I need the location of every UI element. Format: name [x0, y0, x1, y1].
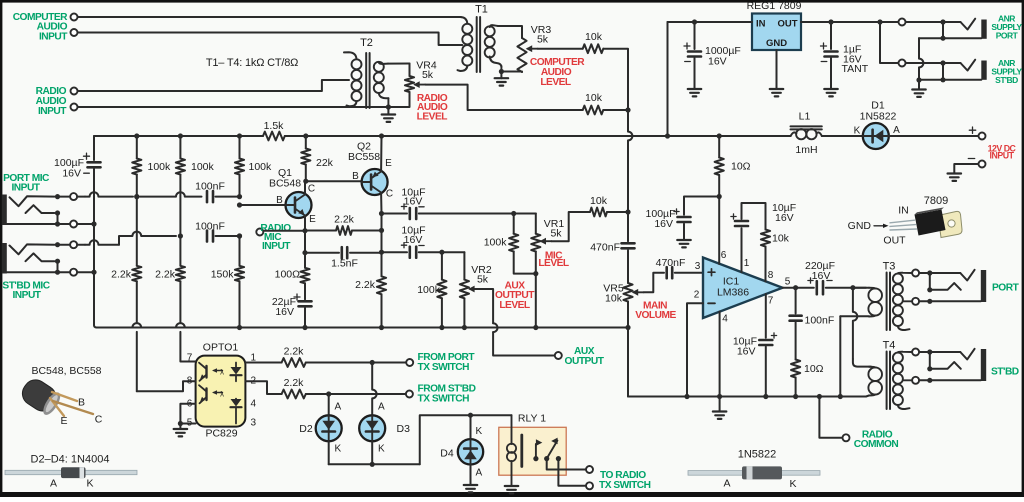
transformer T4 [868, 340, 911, 410]
svg-text:2.2k: 2.2k [155, 269, 176, 281]
ground 12V input [948, 174, 962, 181]
jack ST'BD output [912, 349, 986, 384]
svg-text:B: B [78, 397, 85, 409]
svg-text:OUT: OUT [777, 19, 797, 30]
svg-text:A: A [335, 402, 342, 413]
wire to VR1 top [535, 214, 537, 234]
diode D3 1N4004 [359, 402, 410, 455]
wire T2 secondary top to VR4 [388, 63, 410, 65]
package drawing 1N5822 [688, 449, 820, 491]
svg-text:10k: 10k [772, 233, 790, 245]
wire L1 to D1 [822, 135, 863, 137]
svg-text:GND: GND [766, 38, 787, 49]
svg-text:TANT: TANT [842, 63, 869, 75]
node T2 secondary bottom junction [386, 98, 391, 114]
capacitor 10uF 16V (aux out) [383, 225, 464, 258]
wire D1 to +12V terminal [889, 135, 978, 137]
resistor 150k [211, 233, 244, 327]
svg-text:16V: 16V [404, 234, 423, 246]
svg-text:VOLUME: VOLUME [635, 310, 676, 321]
label ANR SUPPLY PORT [991, 14, 1022, 41]
svg-text:IN: IN [898, 205, 909, 217]
svg-text:5: 5 [785, 276, 791, 287]
svg-text:100Ω: 100Ω [275, 269, 301, 281]
svg-text:TX SWITCH: TX SWITCH [418, 362, 470, 373]
svg-text:T4: T4 [883, 340, 896, 352]
svg-text:LEVEL: LEVEL [540, 77, 571, 88]
relay RLY 1 [499, 413, 566, 487]
svg-text:λ: λ [220, 390, 224, 399]
svg-text:16V: 16V [275, 306, 294, 318]
svg-text:BC548: BC548 [269, 178, 301, 190]
transistor Q2 BC558 [348, 141, 393, 200]
svg-text:2.2k: 2.2k [355, 279, 376, 291]
wire pin2 [684, 303, 703, 399]
package drawing BC548 BC558 TO-92 [18, 365, 103, 427]
svg-text:D4: D4 [440, 448, 454, 460]
wire mic common column to bottom bus [94, 325, 97, 328]
svg-text:1N5822: 1N5822 [860, 111, 897, 123]
svg-text:2: 2 [694, 290, 700, 301]
svg-text:5k: 5k [537, 34, 549, 46]
terminal RADIO COMMON [843, 430, 899, 451]
svg-text:4: 4 [251, 399, 257, 410]
svg-text:D3: D3 [397, 423, 411, 435]
resistor 100k bias stbd [176, 136, 215, 236]
capacitor 1000uF 16V [684, 22, 741, 89]
wire to ST'BD supply [880, 22, 961, 67]
svg-text:K: K [378, 444, 385, 455]
svg-text:COMMON: COMMON [854, 439, 899, 450]
wire opto pin7 [180, 332, 195, 362]
resistor 100k bias port [132, 136, 171, 197]
wire VR4 wiper to 10k line [425, 85, 583, 110]
wire T3 primary top [853, 287, 869, 289]
capacitor 10uF 16V (mic out) [383, 187, 536, 220]
wire D2 anode [328, 394, 330, 415]
svg-text:16V: 16V [654, 218, 673, 230]
svg-text:B: B [352, 171, 359, 182]
label COMPUTER AUDIO LEVEL [530, 57, 585, 88]
svg-text:GND: GND [848, 220, 872, 232]
wire summing column crossing supply bus [628, 110, 632, 212]
wire port mic tip line [77, 192, 201, 199]
wire port mic sleeve to common [77, 221, 96, 226]
svg-text:1N5822: 1N5822 [738, 449, 777, 461]
wire REG GND pin [776, 50, 778, 89]
svg-text:A: A [378, 402, 385, 413]
wire to VR2 top [463, 252, 465, 279]
wire D3 anode crossing [372, 363, 376, 415]
capacitor 100uF 16V (input rail) [54, 136, 100, 325]
terminal TO RADIO TX SWITCH [586, 466, 651, 491]
svg-text:OUT: OUT [883, 235, 906, 247]
svg-text:λ: λ [220, 368, 224, 377]
capacitor 10uF + resistor 10k gain [731, 202, 796, 282]
wire pin2 jog [245, 381, 281, 394]
svg-text:PORT: PORT [996, 31, 1019, 41]
svg-text:INPUT: INPUT [12, 290, 41, 301]
wire Q1 emitter [304, 216, 306, 231]
svg-text:16V: 16V [737, 346, 756, 358]
wire computer audio 1 to T1 primary top [78, 16, 462, 18]
wire VR2 wiper to AUX OUTPUT [480, 289, 554, 356]
resistor 100k bias q1 [235, 136, 272, 197]
terminal +12V DC INPUT [969, 127, 985, 140]
svg-text:100k: 100k [148, 161, 172, 173]
wire REG input column to bus [667, 22, 669, 136]
potentiometer VR1 5k MIC LEVEL [531, 218, 564, 328]
svg-text:B: B [276, 195, 283, 206]
wire RADIO COMMON [817, 394, 843, 438]
wire 10k to summing column [603, 49, 628, 110]
resistor 1.5k in supply bus [263, 120, 285, 140]
capacitor 22uF 16V [272, 283, 312, 327]
ground under 1uF [824, 89, 838, 96]
svg-text:BC558: BC558 [348, 151, 380, 163]
resistor 22k [301, 136, 333, 181]
svg-text:INPUT: INPUT [38, 106, 67, 117]
wire opto pin6 pin5 to ground [178, 404, 196, 429]
resistor 100k mic level [484, 214, 539, 277]
wire radio audio 2 to T2 secondary bottom node [78, 106, 387, 108]
wire diode cathode line [329, 413, 512, 467]
svg-text:470nF: 470nF [590, 242, 620, 254]
svg-text:K: K [476, 426, 483, 437]
capacitor 100nF stbd [195, 221, 242, 242]
svg-text:5k: 5k [422, 69, 434, 81]
svg-text:8: 8 [768, 270, 774, 281]
resistor 100R emitter [275, 268, 310, 284]
note T1-T4 spec [206, 57, 298, 69]
svg-text:PORT: PORT [992, 283, 1020, 294]
svg-text:TX SWITCH: TX SWITCH [599, 480, 651, 491]
wire T4 primary bottom joins ground bus [866, 396, 869, 397]
svg-text:BC548, BC558: BC548, BC558 [31, 365, 101, 377]
capacitor 470nF (sum) [590, 212, 634, 283]
wire Q1 collector [303, 179, 308, 195]
wire Q2 emitter to bus [380, 136, 382, 172]
svg-text:1: 1 [744, 258, 750, 269]
svg-text:K: K [86, 478, 93, 490]
wire main 12V bus [94, 133, 791, 138]
resistor 2.2k stbd channel [155, 236, 185, 323]
svg-text:T1– T4: 1kΩ CT/8Ω: T1– T4: 1kΩ CT/8Ω [206, 57, 298, 69]
svg-text:7: 7 [768, 296, 774, 307]
wire REG OUT line [801, 19, 961, 26]
svg-text:T2: T2 [360, 37, 373, 49]
svg-text:100nF: 100nF [195, 181, 225, 193]
svg-text:OUTPUT: OUTPUT [565, 356, 605, 367]
wire pin4 to ground bus [717, 312, 722, 400]
svg-text:22k: 22k [316, 157, 334, 169]
wire VR5 wiper to 470nF [644, 273, 664, 293]
transformer T2 [344, 37, 388, 108]
terminal FROM ST'BD TX SWITCH [406, 384, 476, 405]
svg-text:LEVEL: LEVEL [499, 300, 530, 311]
svg-text:5k: 5k [477, 274, 489, 286]
svg-text:D2: D2 [299, 423, 313, 435]
wire output to T4 (vertical) [853, 288, 871, 367]
diode D4 1N4004 [440, 415, 483, 485]
svg-text:1mH: 1mH [795, 144, 817, 156]
svg-text:OPTO1: OPTO1 [203, 342, 239, 354]
label AUX OUTPUT LEVEL [495, 281, 535, 311]
svg-text:2.2k: 2.2k [284, 377, 305, 389]
ground under T2 [382, 115, 396, 122]
capacitor 220uF 16V output [805, 260, 866, 294]
resistor 10k (computer) [583, 31, 604, 53]
label MAIN VOLUME [635, 301, 676, 322]
transistor Q1 BC548 [269, 167, 316, 225]
capacitor 1uF 16V TANT [821, 22, 869, 89]
wire LM386 output [783, 285, 814, 290]
svg-text:150k: 150k [211, 269, 235, 281]
svg-text:LM386: LM386 [717, 287, 749, 299]
svg-text:3: 3 [695, 261, 701, 272]
jack ANR SUPPLY ST'BD [919, 60, 987, 83]
svg-text:C: C [308, 184, 315, 195]
svg-text:A: A [50, 478, 57, 490]
svg-text:10Ω: 10Ω [804, 363, 824, 375]
wire bottom ground bus (left) [97, 323, 631, 330]
svg-text:100nF: 100nF [805, 315, 835, 327]
wire REG IN [668, 19, 753, 24]
svg-text:ST'BD: ST'BD [995, 75, 1018, 85]
wire Q2 collector column [379, 193, 384, 277]
wire T1 secondary top to VR3 [498, 26, 522, 38]
potentiometer VR4 5k RADIO AUDIO LEVEL [405, 59, 437, 92]
svg-text:10k: 10k [585, 92, 603, 104]
svg-text:2.2k: 2.2k [111, 269, 132, 281]
capacitor 10uF 16V pin7 [733, 294, 777, 399]
svg-text:D2–D4: 1N4004: D2–D4: 1N4004 [31, 454, 110, 466]
capacitor 100nF zobel [790, 288, 835, 360]
capacitor 470nF (input) [656, 257, 703, 278]
package drawing 7809 [848, 195, 962, 247]
svg-text:REG1 7809: REG1 7809 [747, 0, 802, 12]
svg-text:6: 6 [721, 250, 727, 261]
svg-text:100k: 100k [417, 284, 441, 296]
svg-text:L1: L1 [799, 111, 811, 123]
regulator REG1 7809 [747, 0, 802, 50]
svg-text:RLY 1: RLY 1 [518, 413, 546, 425]
svg-text:16V: 16V [812, 270, 831, 282]
svg-text:INPUT: INPUT [990, 150, 1015, 160]
op-amp IC1 LM386 [694, 250, 791, 324]
svg-text:INPUT: INPUT [262, 241, 291, 252]
ground D4 [464, 485, 478, 492]
wire opto pin8 [137, 332, 196, 391]
terminal -12V and ground [954, 159, 985, 174]
terminal RADIO AUDIO INPUT [36, 86, 78, 117]
svg-text:16V: 16V [708, 56, 727, 68]
wire stbd mic tip line [77, 232, 183, 245]
svg-text:5k: 5k [550, 228, 562, 240]
svg-text:K: K [335, 444, 342, 455]
svg-text:T3: T3 [883, 261, 896, 273]
svg-text:E: E [60, 415, 67, 427]
capacitor 100nF port [195, 181, 242, 203]
capacitor 100uF 16V (v+) [646, 197, 720, 248]
svg-text:10k: 10k [590, 195, 608, 207]
svg-text:3: 3 [251, 418, 257, 429]
svg-text:100nF: 100nF [195, 221, 225, 233]
svg-text:ST'BD: ST'BD [991, 367, 1019, 378]
svg-text:LEVEL: LEVEL [538, 258, 569, 269]
wire Q1 emitter column [302, 231, 307, 268]
ground relay coil [505, 486, 519, 493]
wire T1 sec bottom to VR3 bottom [501, 71, 522, 74]
transformer T1 [458, 4, 502, 73]
label 12V DC INPUT [988, 143, 1017, 160]
potentiometer VR5 10k MAIN VOLUME [603, 283, 643, 328]
package drawing D2-D4 1N4004 [5, 454, 137, 490]
ground opto [174, 429, 188, 436]
svg-text:INPUT: INPUT [39, 32, 68, 43]
svg-text:4: 4 [722, 314, 728, 325]
terminal FROM PORT TX SWITCH [406, 352, 475, 373]
wire VR3 wiper to 10k [538, 48, 583, 50]
label PORT MIC INPUT [3, 173, 50, 193]
ground under 1000uF [688, 89, 702, 96]
terminal COMPUTER AUDIO INPUT [13, 12, 78, 43]
label ANR SUPPLY ST'BD [991, 58, 1022, 85]
ground main [713, 397, 727, 419]
svg-text:16V: 16V [404, 196, 423, 208]
ground supply jacks [912, 80, 926, 97]
resistor 10k (radio) [583, 92, 604, 114]
diode D2 1N4004 [299, 402, 341, 455]
svg-text:16V: 16V [62, 168, 81, 180]
svg-text:7809: 7809 [924, 195, 948, 207]
potentiometer VR3 5k COMPUTER AUDIO LEVEL [517, 24, 551, 72]
svg-text:10Ω: 10Ω [731, 161, 751, 173]
terminal RADIO MIC INPUT [256, 223, 291, 252]
wire radio2 node to VR4 bottom [388, 92, 409, 107]
svg-text:10k: 10k [605, 292, 623, 304]
resistor 2.2k q2 load [355, 276, 386, 327]
wire relay contacts to TO RADIO TX SWITCH [547, 459, 586, 486]
wire stbd mic sleeve to common [77, 270, 96, 275]
svg-text:2.2k: 2.2k [334, 214, 355, 226]
terminal AUX OUTPUT [555, 346, 605, 367]
svg-text:100k: 100k [191, 161, 215, 173]
wire ground bus drop [628, 328, 866, 397]
svg-text:C: C [386, 189, 393, 200]
svg-text:IN: IN [756, 19, 766, 30]
transformer T3 [868, 261, 911, 331]
jack PORT output [912, 270, 986, 305]
svg-text:C: C [95, 414, 103, 426]
svg-text:2.2k: 2.2k [284, 346, 305, 358]
label ST'BD [991, 367, 1019, 378]
svg-text:K: K [789, 478, 796, 490]
wire 10k radio to column [603, 107, 630, 112]
resistor 100k aux [417, 252, 446, 327]
svg-text:TX SWITCH: TX SWITCH [418, 393, 470, 404]
wire radio mic to Q1 emitter [264, 228, 308, 233]
potentiometer VR2 5k AUX OUTPUT LEVEL [460, 264, 492, 328]
svg-text:LEVEL: LEVEL [417, 111, 448, 122]
resistor 10R zobel [791, 360, 824, 400]
ground REG1 [770, 89, 784, 96]
optocoupler OPTO1 PC829 [187, 342, 257, 440]
diode D1 1N5822 [854, 100, 901, 150]
ground under T1 secondary [495, 78, 509, 85]
label MIC LEVEL [538, 251, 569, 269]
svg-text:10k: 10k [585, 31, 603, 43]
svg-text:A: A [893, 125, 900, 136]
node T1 secondary bottom [499, 66, 504, 78]
resistor 2.2k feedback [305, 214, 382, 235]
svg-text:1.5k: 1.5k [264, 120, 285, 132]
capacitor 1.5nF [305, 247, 382, 269]
svg-text:T1: T1 [475, 4, 488, 16]
wire computer audio 2 to T1 primary CT [78, 33, 459, 46]
jack ST'BD MIC INPUT [2, 241, 77, 276]
resistor 10R supply [715, 136, 751, 264]
wire VR1 wiper to 10k [552, 212, 591, 241]
label ST'BD MIC INPUT [2, 281, 50, 301]
svg-text:16V: 16V [775, 212, 794, 224]
svg-text:100k: 100k [484, 237, 508, 249]
wire to Q1 base [237, 202, 292, 207]
resistor 2.2k pin1 [245, 346, 406, 367]
label RADIO AUDIO LEVEL [417, 93, 448, 122]
svg-text:A: A [723, 478, 730, 490]
jack PORT MIC INPUT [2, 193, 77, 227]
svg-text:E: E [385, 158, 392, 169]
svg-text:1.5nF: 1.5nF [331, 258, 358, 270]
svg-text:100k: 100k [249, 161, 273, 173]
wire radio audio 1 to T2 primary CT [78, 80, 350, 91]
resistor 2.2k port channel [111, 194, 141, 323]
resistor 10k to main volume [590, 195, 631, 216]
svg-text:K: K [854, 126, 861, 137]
jack ANR SUPPLY PORT [919, 19, 987, 41]
wire T3 primary bottom to ground bus [838, 316, 869, 399]
resistor 2.2k pin2 [282, 377, 406, 398]
wire Q1 collector to Q2 base [306, 180, 362, 182]
wire PORT sleeve down [916, 38, 923, 82]
inductor L1 1mH [791, 111, 822, 157]
svg-text:PC829: PC829 [205, 428, 237, 440]
svg-text:470nF: 470nF [656, 257, 686, 269]
label PORT [992, 283, 1020, 294]
svg-text:A: A [476, 468, 483, 479]
svg-text:INPUT: INPUT [11, 182, 40, 193]
svg-text:E: E [309, 214, 316, 225]
